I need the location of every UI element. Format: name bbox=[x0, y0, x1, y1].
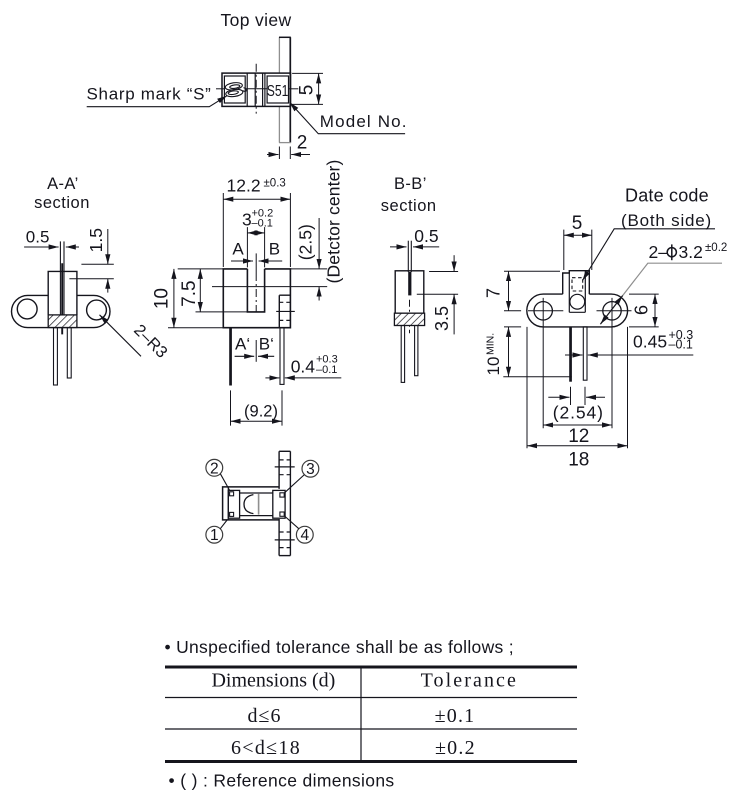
screen bar (top view) bbox=[279, 37, 291, 142]
svg-text:3: 3 bbox=[306, 461, 315, 478]
svg-text:Tolerance: Tolerance bbox=[421, 670, 518, 692]
svg-text:Top view: Top view bbox=[221, 10, 292, 30]
svg-text:Model No.: Model No. bbox=[320, 112, 408, 131]
svg-text:(Both side): (Both side) bbox=[621, 211, 712, 230]
svg-text:0.45: 0.45 bbox=[633, 332, 667, 352]
A-A' tower bbox=[48, 271, 77, 315]
svg-text:2–R3: 2–R3 bbox=[130, 321, 171, 362]
right tower bbox=[563, 271, 590, 313]
pin callout 3 bbox=[285, 460, 319, 492]
A-A' slit bbox=[60, 241, 64, 334]
svg-text:12.2: 12.2 bbox=[227, 176, 261, 196]
svg-text:±0.2: ±0.2 bbox=[705, 242, 727, 254]
svg-text:6: 6 bbox=[632, 305, 652, 315]
pin callout 1 bbox=[206, 520, 228, 545]
svg-text:section: section bbox=[34, 194, 90, 212]
right stadium base bbox=[527, 294, 628, 327]
right hole w/ crosshair bbox=[597, 298, 632, 428]
svg-text:Dimensions (d): Dimensions (d) bbox=[211, 670, 335, 692]
svg-text:±0.2: ±0.2 bbox=[435, 737, 476, 759]
dim 0.45 +0.3-0.1 bbox=[633, 328, 693, 352]
svg-text:• ( ) : Reference dimensions: • ( ) : Reference dimensions bbox=[169, 771, 395, 791]
dim 10 MIN (right view) bbox=[484, 333, 503, 376]
front leads bbox=[229, 328, 284, 386]
pin view bar bbox=[279, 451, 290, 555]
tolerance table bbox=[165, 667, 577, 762]
sharp mark label bbox=[87, 85, 228, 107]
B-B' slit bbox=[408, 241, 411, 296]
svg-text:• Unspecified tolerance shall: • Unspecified tolerance shall be as foll… bbox=[165, 637, 514, 657]
svg-text:0.4: 0.4 bbox=[291, 357, 316, 377]
svg-text:3.2: 3.2 bbox=[679, 242, 703, 262]
svg-text:5: 5 bbox=[572, 213, 583, 234]
pin view left block bbox=[228, 490, 239, 518]
A-A' hatch bbox=[48, 315, 77, 328]
svg-text:4: 4 bbox=[300, 527, 309, 544]
B-B' hatch bbox=[394, 313, 424, 325]
svg-text:±0.1: ±0.1 bbox=[435, 705, 476, 727]
pin callout 4 bbox=[285, 516, 314, 544]
svg-text:(Detctor center): (Detctor center) bbox=[324, 160, 344, 284]
svg-text:3: 3 bbox=[242, 210, 252, 230]
left hole w/ crosshair bbox=[528, 298, 563, 428]
svg-text:A: A bbox=[232, 240, 244, 259]
2-phi3.2 label bbox=[600, 242, 727, 324]
svg-text:Sharp mark “S”: Sharp mark “S” bbox=[87, 85, 212, 104]
front date code box bbox=[276, 295, 295, 327]
svg-text:2: 2 bbox=[210, 460, 219, 477]
svg-text:A-A’: A-A’ bbox=[47, 175, 79, 193]
svg-text:10: 10 bbox=[484, 357, 503, 376]
top view body bbox=[222, 73, 291, 106]
sharp S logo bbox=[225, 82, 246, 98]
2-R3 label bbox=[100, 315, 171, 362]
svg-text:–0.1: –0.1 bbox=[252, 218, 273, 230]
svg-text:S51: S51 bbox=[267, 83, 289, 100]
svg-text:(2.5): (2.5) bbox=[296, 224, 316, 260]
date code rect (dashed) bbox=[572, 278, 583, 291]
dim 12.2 +-0.3 bbox=[227, 176, 286, 196]
svg-text:(2.54): (2.54) bbox=[553, 403, 604, 423]
dim 0.4 +0.3-0.1 bbox=[291, 354, 338, 377]
pin view middle channel bbox=[240, 493, 273, 516]
svg-text:7: 7 bbox=[484, 288, 504, 298]
dim 3 +0.2-0.1 bbox=[242, 208, 273, 230]
svg-text:B-B’: B-B’ bbox=[394, 175, 427, 193]
svg-text:0.5: 0.5 bbox=[26, 228, 50, 247]
svg-text:7.5: 7.5 bbox=[179, 280, 200, 306]
dim 2 (top view) bbox=[267, 147, 310, 160]
svg-text:–0.1: –0.1 bbox=[316, 364, 337, 376]
svg-text:B‘: B‘ bbox=[259, 335, 274, 354]
A-A' stadium base bbox=[12, 295, 111, 327]
svg-text:2–: 2– bbox=[649, 242, 669, 262]
B-B' centerline bbox=[409, 300, 411, 334]
front centerline bbox=[255, 273, 257, 312]
svg-text:3.5: 3.5 bbox=[432, 306, 452, 331]
svg-text:Date code: Date code bbox=[625, 185, 709, 205]
B-B' body bbox=[395, 271, 424, 313]
tower circle bbox=[570, 294, 585, 309]
svg-text:section: section bbox=[381, 197, 437, 215]
svg-text:6<d≤18: 6<d≤18 bbox=[231, 737, 301, 759]
svg-text:(9.2): (9.2) bbox=[244, 403, 278, 421]
svg-text:MIN.: MIN. bbox=[485, 333, 497, 355]
section cut arrows (top) bbox=[231, 253, 282, 273]
top view centerlines bbox=[216, 64, 298, 114]
section cut arrows (bottom) bbox=[235, 340, 275, 362]
svg-text:1.5: 1.5 bbox=[86, 228, 106, 252]
right view leads bbox=[569, 327, 587, 382]
svg-text:18: 18 bbox=[568, 449, 589, 470]
pin view body bbox=[223, 487, 280, 520]
model no label bbox=[290, 102, 408, 133]
svg-text:5: 5 bbox=[296, 85, 317, 96]
date code label bbox=[583, 185, 716, 280]
svg-text:d≤6: d≤6 bbox=[248, 705, 282, 727]
svg-text:2: 2 bbox=[297, 132, 308, 153]
svg-text:B: B bbox=[269, 240, 280, 259]
svg-text:A‘: A‘ bbox=[235, 335, 250, 354]
front body outline bbox=[223, 269, 290, 328]
svg-text:1: 1 bbox=[210, 527, 219, 544]
B-B' leads bbox=[401, 326, 418, 383]
detector center line bbox=[212, 286, 327, 288]
pin view right block bbox=[273, 490, 285, 518]
A-A' leads bbox=[54, 328, 72, 385]
svg-text:0.5: 0.5 bbox=[414, 226, 438, 246]
svg-text:–0.1: –0.1 bbox=[669, 338, 693, 352]
dim 5 (top view) bbox=[292, 73, 323, 104]
svg-text:12: 12 bbox=[568, 426, 589, 447]
svg-text:±0.3: ±0.3 bbox=[264, 178, 286, 190]
svg-text:10: 10 bbox=[152, 288, 173, 309]
pin callout 2 bbox=[206, 459, 230, 491]
